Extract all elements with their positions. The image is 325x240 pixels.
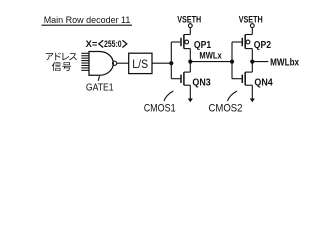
svg-text:255:0: 255:0 (104, 39, 122, 49)
svg-text:QP1: QP1 (194, 40, 212, 51)
svg-text:MWLbx: MWLbx (270, 58, 299, 69)
svg-text:CMOS2: CMOS2 (209, 103, 243, 115)
svg-text:QP2: QP2 (254, 40, 272, 51)
svg-text:VSETH: VSETH (239, 14, 263, 25)
svg-text:Main Row decoder 11: Main Row decoder 11 (44, 15, 131, 25)
svg-text:QN4: QN4 (254, 78, 273, 89)
svg-text:CMOS1: CMOS1 (144, 103, 176, 115)
svg-text:QN3: QN3 (192, 78, 211, 89)
svg-text:L/S: L/S (132, 57, 148, 71)
svg-text:MWLx: MWLx (199, 51, 222, 62)
svg-text:VSETH: VSETH (177, 14, 201, 25)
svg-text:X=: X= (86, 39, 98, 49)
svg-text:GATE1: GATE1 (86, 82, 114, 93)
